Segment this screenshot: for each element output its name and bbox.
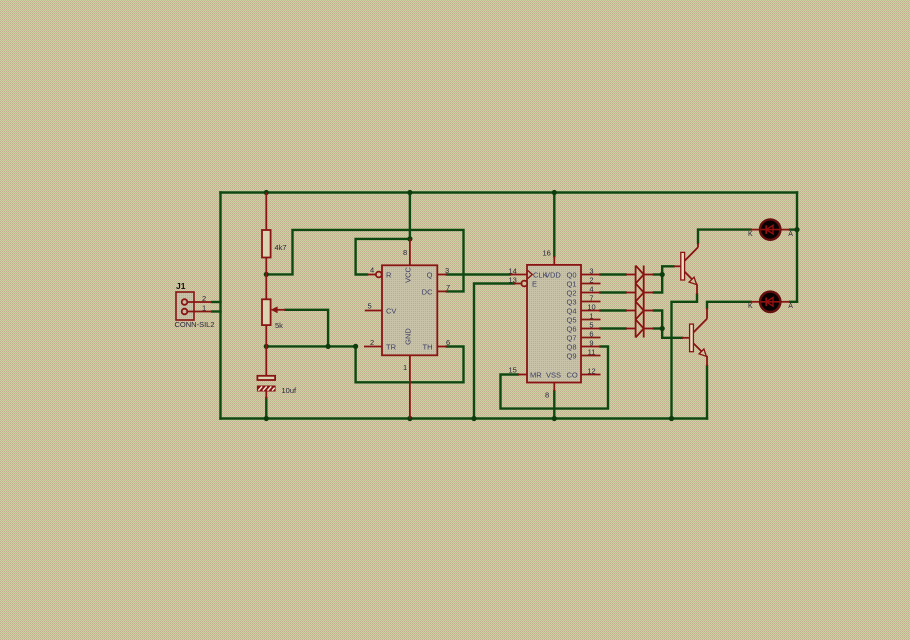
LED D6 xyxy=(748,292,793,312)
svg-text:2: 2 xyxy=(370,338,374,347)
555 pin 1 GND xyxy=(403,355,410,418)
svg-text:J1: J1 xyxy=(176,281,186,291)
svg-text:CONN-SIL2: CONN-SIL2 xyxy=(175,320,215,329)
svg-text:8: 8 xyxy=(545,390,549,399)
diode D3 xyxy=(626,302,654,320)
wire D4 cathode to node xyxy=(654,327,662,329)
svg-text:2: 2 xyxy=(589,275,593,284)
svg-text:Q1: Q1 xyxy=(566,279,576,288)
svg-text:Q3: Q3 xyxy=(566,297,576,306)
svg-text:Q0: Q0 xyxy=(566,270,576,279)
svg-text:K: K xyxy=(748,303,753,310)
svg-text:2: 2 xyxy=(202,294,206,303)
svg-text:6: 6 xyxy=(446,338,450,347)
node top rail / 4k7 xyxy=(264,190,269,195)
svg-text:14: 14 xyxy=(509,266,517,275)
connector J1 CONN-SIL2 xyxy=(175,281,215,329)
555 pin 2 TR xyxy=(364,338,382,347)
svg-text:7: 7 xyxy=(446,283,450,292)
svg-text:1: 1 xyxy=(202,304,206,313)
4017 pin 12 CO xyxy=(581,366,601,375)
transistor Q1 xyxy=(674,243,699,295)
4017 pin 8 VSS xyxy=(545,383,554,400)
svg-text:TH: TH xyxy=(423,343,433,352)
node TR junction xyxy=(353,344,358,349)
svg-text:8: 8 xyxy=(403,248,407,257)
node cap / ground rail xyxy=(264,416,269,421)
555 pin 8 VCC xyxy=(403,239,410,265)
wire pot wiper to TR node xyxy=(286,310,329,347)
wire MR to Q8 loop xyxy=(501,347,609,409)
wire J1 pin2 to rail xyxy=(212,301,221,303)
potentiometer RV1 5k xyxy=(262,274,286,346)
node top rail / 4017 VDD xyxy=(552,190,557,195)
wire Q4 to diode D3 xyxy=(601,309,626,311)
svg-text:A: A xyxy=(788,231,793,238)
node emitter path / ground rail xyxy=(669,416,674,421)
resistor R1 4k7 xyxy=(262,193,287,275)
node diode bus bottom xyxy=(660,326,665,331)
svg-text:15: 15 xyxy=(509,365,517,374)
diode D1 xyxy=(626,266,654,284)
capacitor C1 10uf xyxy=(257,346,297,398)
wire base bus to Q2 base xyxy=(662,329,682,338)
wire left rail xyxy=(219,193,221,419)
wire VDD vertical xyxy=(553,193,555,257)
wire J1 pin1 to rail xyxy=(212,310,221,312)
wire Q6 to diode D4 xyxy=(601,327,626,329)
wire 555 Q to 4017 CLK xyxy=(447,273,510,275)
wire Q2 collector to LED2 K xyxy=(707,302,751,308)
svg-text:A: A xyxy=(788,303,793,310)
svg-text:Q7: Q7 xyxy=(566,333,576,342)
svg-text:CO: CO xyxy=(567,370,578,379)
wire top VCC rail xyxy=(221,191,798,193)
wire VSS to ground rail xyxy=(553,391,555,419)
wire bottom ground rail xyxy=(221,417,708,419)
node pot bottom xyxy=(264,344,269,349)
4017 pin 5 Q6 xyxy=(581,320,601,329)
svg-text:6: 6 xyxy=(589,329,593,338)
svg-text:4: 4 xyxy=(370,266,374,275)
svg-text:3: 3 xyxy=(445,266,449,275)
wire 4k7 bottom to DC loop xyxy=(266,230,463,292)
svg-text:10: 10 xyxy=(587,302,595,311)
wire Q0 to diode D1 xyxy=(601,273,626,275)
op-amp U1 555 timer body xyxy=(382,265,437,355)
svg-text:5k: 5k xyxy=(275,321,283,330)
svg-text:Q: Q xyxy=(427,271,433,280)
wire reset loop to 555 pin4 xyxy=(356,239,410,275)
LED D5 xyxy=(748,219,793,239)
4017 pin 1 Q5 xyxy=(581,311,601,320)
wire LED1 anode to right rail xyxy=(790,228,797,230)
svg-text:TR: TR xyxy=(386,343,397,352)
4017 pin 16 VDD xyxy=(543,248,555,265)
wire D1 cathode to base bus node xyxy=(654,273,662,275)
svg-text:GND: GND xyxy=(404,328,413,345)
svg-text:K: K xyxy=(748,231,753,238)
svg-text:16: 16 xyxy=(543,248,551,257)
svg-text:4: 4 xyxy=(589,284,593,293)
wire D2 cathode up to node xyxy=(654,275,662,293)
wire right rail to LEDs xyxy=(796,193,798,302)
svg-text:5: 5 xyxy=(589,320,593,329)
wire base bus to Q1 base xyxy=(662,266,673,274)
node reset/VCC xyxy=(407,236,412,241)
svg-text:DC: DC xyxy=(422,288,433,297)
svg-text:Q8: Q8 xyxy=(566,342,576,351)
svg-text:1: 1 xyxy=(403,363,407,372)
555 pin 7 DC xyxy=(437,283,450,292)
svg-text:Q5: Q5 xyxy=(566,315,576,324)
4017 pin 6 Q7 xyxy=(581,329,601,338)
svg-text:9: 9 xyxy=(589,338,593,347)
diode D2 xyxy=(626,284,654,302)
svg-text:VCC: VCC xyxy=(404,267,413,283)
4017 pin 7 Q3 xyxy=(581,293,601,302)
wire D3 cathode down to node xyxy=(654,311,662,329)
node wiper junction xyxy=(326,344,331,349)
svg-text:11: 11 xyxy=(588,347,596,356)
node diode bus top xyxy=(660,272,665,277)
wire TR horizontal net xyxy=(266,345,355,347)
op-amp U2 4017 counter body xyxy=(527,265,581,383)
diode D4 xyxy=(626,320,654,338)
4017 pin 2 Q1 xyxy=(581,275,601,284)
svg-text:VSS: VSS xyxy=(546,370,561,379)
node E wire / ground rail xyxy=(471,416,476,421)
svg-text:7: 7 xyxy=(589,293,593,302)
svg-text:R: R xyxy=(386,271,392,280)
svg-text:1: 1 xyxy=(589,311,593,320)
transistor Q2 xyxy=(682,308,707,366)
node 555 GND / ground rail xyxy=(407,416,412,421)
4017 pin 14 CLK xyxy=(509,266,528,275)
svg-text:13: 13 xyxy=(509,275,517,284)
4017 pin 4 Q2 xyxy=(581,284,601,293)
node LED1 anode xyxy=(794,227,799,232)
wire Q2 to diode D2 xyxy=(601,291,626,293)
svg-text:4k7: 4k7 xyxy=(275,243,287,252)
wire VCC vertical to 555 pin8 xyxy=(409,193,411,239)
wire cap bottom to ground rail xyxy=(265,398,267,419)
svg-text:12: 12 xyxy=(587,366,595,375)
555 pin 4 R with bubble xyxy=(367,266,382,278)
svg-text:5: 5 xyxy=(368,302,372,311)
555 pin 3 Q xyxy=(437,266,449,275)
wire 4017 E to ground xyxy=(474,284,514,419)
svg-text:10uf: 10uf xyxy=(282,386,298,395)
svg-text:Q2: Q2 xyxy=(566,288,576,297)
wire TR-TH loop xyxy=(356,346,464,382)
svg-text:Q4: Q4 xyxy=(566,306,576,315)
node top rail / 555 VCC xyxy=(407,190,412,195)
svg-text:MR: MR xyxy=(530,370,542,379)
svg-text:CV: CV xyxy=(386,307,396,316)
4017 pin 13 E with bubble xyxy=(509,275,528,286)
svg-text:Q6: Q6 xyxy=(566,324,576,333)
4017 pin 10 Q4 xyxy=(581,302,601,311)
svg-text:VDD: VDD xyxy=(545,270,561,279)
wire Q1 collector to LED1 K xyxy=(698,230,751,243)
svg-text:E: E xyxy=(532,279,537,288)
555 pin 5 CV stub xyxy=(365,302,382,311)
4017 pin 11 Q9 xyxy=(581,347,601,356)
wire LED2 anode to right rail xyxy=(790,301,797,303)
wire Q1 emitter to ground xyxy=(672,295,698,419)
4017 pin 3 Q0 xyxy=(581,266,601,275)
555 pin 6 TH xyxy=(437,338,450,347)
node 4017 VSS / ground rail xyxy=(552,416,557,421)
4017 pin 15 MR xyxy=(509,365,528,374)
svg-text:3: 3 xyxy=(589,266,593,275)
wire Q2 emitter to ground rail xyxy=(706,366,708,419)
4017 pin 9 Q8 xyxy=(581,338,601,347)
svg-text:Q9: Q9 xyxy=(566,351,576,360)
node 4k7 bottom xyxy=(264,272,269,277)
